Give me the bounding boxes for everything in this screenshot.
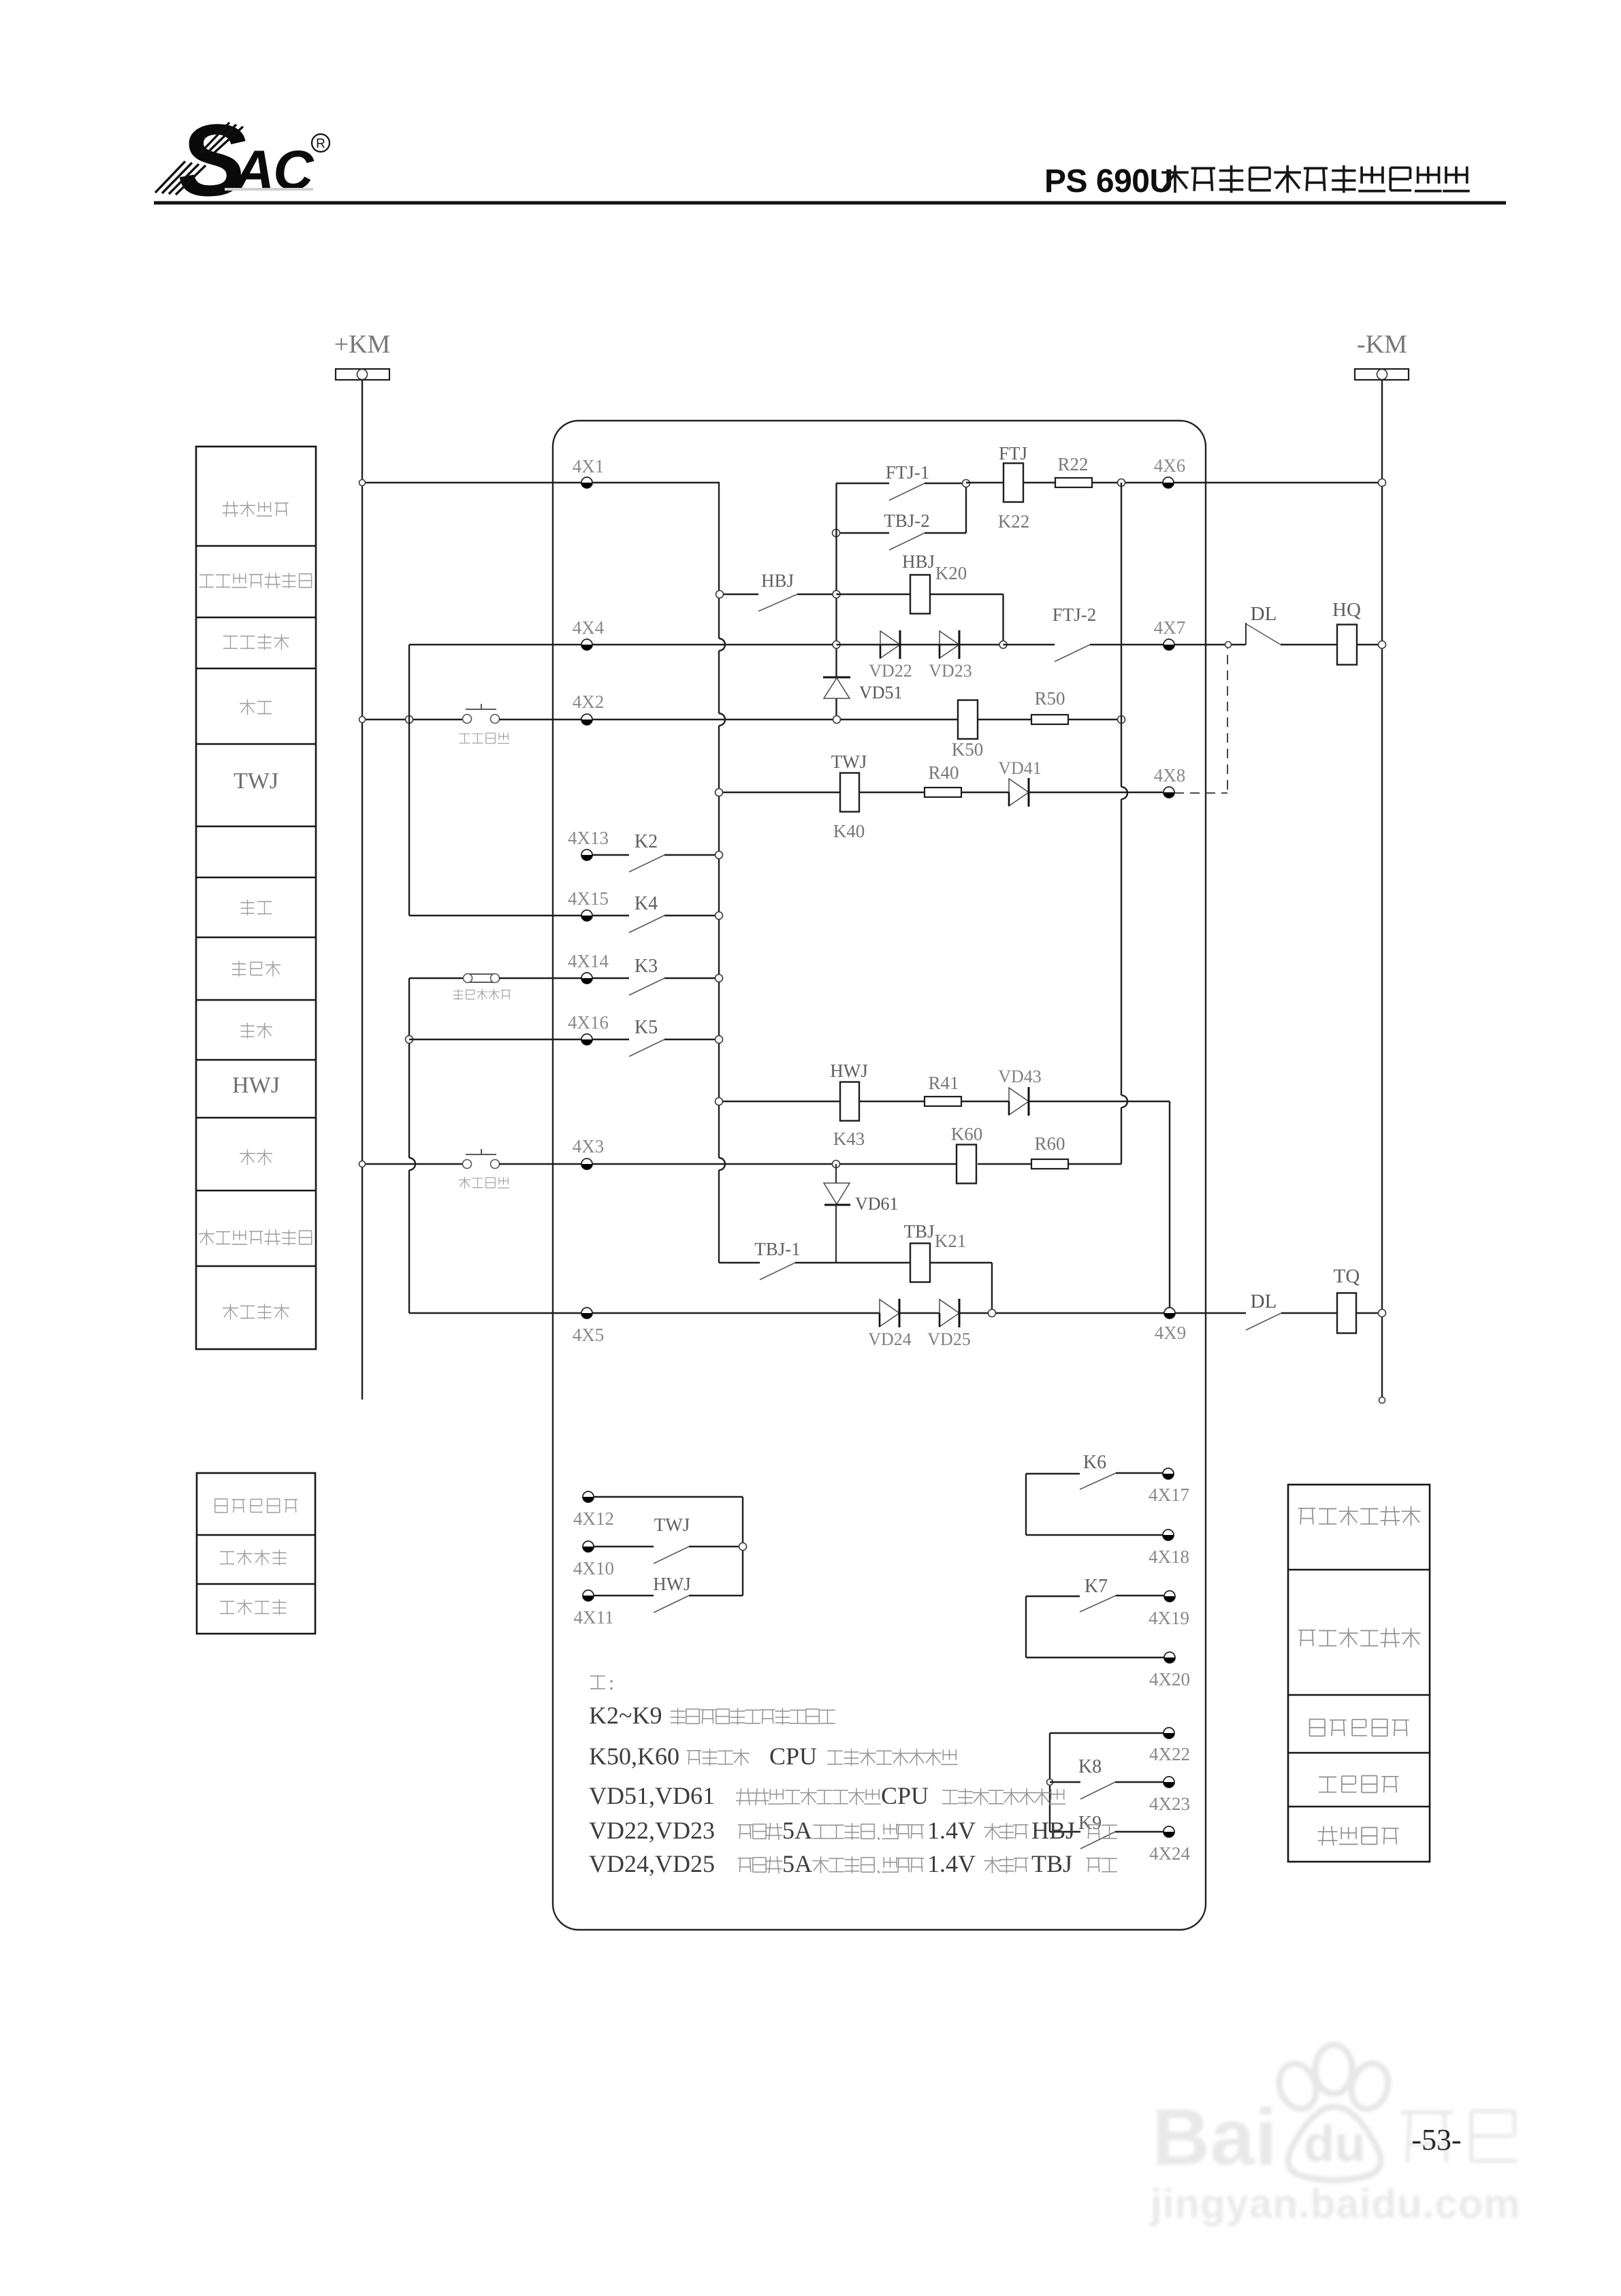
relay coil HBJ K20 bbox=[902, 551, 967, 614]
terminal 4X22 bbox=[1149, 1728, 1190, 1764]
wire K50 to R50 bbox=[978, 719, 1031, 720]
svg-text:HBJ: HBJ bbox=[1031, 1817, 1075, 1844]
wire 4X3 line bbox=[359, 1161, 468, 1167]
contact TBJ-2 bbox=[884, 511, 930, 531]
node label 防跳回路 bbox=[223, 502, 289, 517]
wire HQ to -KM bbox=[1357, 641, 1386, 649]
relay coil K50 bbox=[952, 700, 984, 760]
wire dashed DL linkage bbox=[1174, 648, 1227, 793]
svg-text:VD23: VD23 bbox=[929, 661, 972, 681]
svg-text:R41: R41 bbox=[928, 1073, 959, 1093]
svg-text:VD51,VD61: VD51,VD61 bbox=[589, 1782, 715, 1809]
resistor R40 bbox=[925, 762, 961, 797]
link plate 保护跳压板 bbox=[453, 974, 511, 1001]
svg-text:K7: K7 bbox=[1085, 1576, 1108, 1597]
wire TBJ to 4X9 row bbox=[930, 1263, 992, 1313]
svg-text:VD51: VD51 bbox=[859, 683, 903, 702]
relay coil TQ bbox=[1334, 1265, 1360, 1333]
svg-text:4X10: 4X10 bbox=[573, 1558, 614, 1579]
svg-text:-KM: -KM bbox=[1357, 330, 1407, 359]
svg-text:4X12: 4X12 bbox=[573, 1508, 614, 1529]
node label 合闸入口 bbox=[223, 634, 289, 650]
node label 信号公共端 bbox=[1310, 1719, 1409, 1736]
svg-text:4X5: 4X5 bbox=[573, 1325, 605, 1345]
wire K5 line bbox=[409, 1039, 592, 1040]
note line K50,K60 bbox=[589, 1743, 958, 1770]
svg-text:4X8: 4X8 bbox=[1154, 765, 1186, 786]
svg-text:4X16: 4X16 bbox=[568, 1012, 609, 1033]
node label 开关跳位 bbox=[220, 1550, 286, 1566]
wire 4X5 line bbox=[409, 1312, 880, 1314]
node junction at -KM bbox=[1379, 479, 1386, 487]
svg-text:VD22,VD23: VD22,VD23 bbox=[589, 1817, 715, 1844]
svg-text:4X9: 4X9 bbox=[1155, 1323, 1187, 1343]
svg-text:K43: K43 bbox=[833, 1129, 865, 1149]
relay coil FTJ K22 bbox=[998, 443, 1030, 532]
wire +KM bus bbox=[362, 380, 363, 1400]
relay coil K60 bbox=[951, 1124, 983, 1184]
logo SAC bbox=[155, 103, 330, 217]
svg-text:K22: K22 bbox=[998, 511, 1030, 532]
svg-text:FTJ-2: FTJ-2 bbox=[1053, 604, 1097, 625]
wire K60 to R60 bbox=[978, 1163, 1031, 1165]
terminal 4X6 bbox=[1154, 455, 1186, 488]
svg-text:5A: 5A bbox=[782, 1850, 812, 1877]
header rule bbox=[154, 201, 1506, 205]
svg-text:4X18: 4X18 bbox=[1149, 1547, 1189, 1567]
svg-text:1.4V: 1.4V bbox=[927, 1817, 976, 1844]
wire TWJ coil row bbox=[716, 789, 841, 796]
node label 信号公共端 bbox=[215, 1499, 298, 1513]
node label 开关合位 bbox=[220, 1600, 286, 1615]
watermark baidu jingyan bbox=[1150, 2045, 1521, 2227]
svg-text:K60: K60 bbox=[951, 1124, 983, 1144]
wire plate to 4X14 bbox=[499, 977, 592, 979]
wire branch join vertical bbox=[963, 480, 970, 534]
terminal 4X23 bbox=[1149, 1777, 1190, 1814]
diode VD51 bbox=[823, 677, 903, 702]
node +KM terminal bbox=[334, 330, 391, 380]
wire position block join bbox=[739, 1497, 747, 1596]
wire 4X1 line bbox=[359, 480, 720, 486]
node label 保护跳 bbox=[232, 961, 280, 977]
relay coil TWJ K40 bbox=[831, 751, 867, 841]
contact K7 bbox=[1026, 1576, 1170, 1612]
svg-text:HWJ: HWJ bbox=[830, 1061, 868, 1081]
wire HBJ coil row bbox=[837, 594, 1004, 645]
wire VD41 to 4X8 bbox=[1029, 792, 1169, 793]
diode VD22 bbox=[869, 630, 912, 681]
svg-text:4X11: 4X11 bbox=[574, 1607, 614, 1628]
wire VD25 to 4X9 bbox=[959, 1310, 1246, 1317]
wire R50 to vertical bbox=[1068, 716, 1125, 724]
terminal 4X10 bbox=[573, 1541, 614, 1579]
wire TBJ-2 branch bbox=[833, 530, 967, 551]
diode VD25 bbox=[899, 1299, 971, 1349]
terminal 4X3 bbox=[573, 1136, 605, 1169]
svg-text:K21: K21 bbox=[935, 1231, 967, 1251]
contact K9 bbox=[1050, 1813, 1169, 1849]
wire button to K50 bbox=[499, 716, 958, 724]
wire R41 to VD43 bbox=[961, 1101, 1009, 1102]
svg-text:TBJ-2: TBJ-2 bbox=[884, 511, 930, 531]
wire vertical C (K3 to 4X5 line) bbox=[406, 978, 416, 1313]
diode VD41 bbox=[998, 758, 1042, 807]
device boundary box bbox=[553, 421, 1206, 1930]
svg-text:5A: 5A bbox=[782, 1817, 812, 1844]
node label 遥跳 bbox=[241, 1023, 272, 1039]
wire button to K60 bbox=[499, 1161, 957, 1168]
svg-text:R50: R50 bbox=[1034, 688, 1065, 709]
note line VD22,VD23 bbox=[589, 1817, 1117, 1844]
svg-text:du: du bbox=[1304, 2116, 1365, 2172]
contact HWJ bbox=[594, 1574, 743, 1613]
svg-text:+KM: +KM bbox=[334, 330, 391, 359]
wire vertical A (4X4 to K4) bbox=[408, 645, 410, 916]
svg-text:K2~K9: K2~K9 bbox=[589, 1702, 662, 1729]
svg-text:TWJ: TWJ bbox=[831, 751, 867, 772]
svg-text:4X2: 4X2 bbox=[573, 692, 605, 712]
svg-text:R40: R40 bbox=[928, 762, 959, 783]
svg-text:K4: K4 bbox=[635, 893, 658, 914]
relay coil HQ bbox=[1332, 599, 1361, 665]
node label 跳闸回路自保持 bbox=[199, 1230, 312, 1246]
svg-text:4X17: 4X17 bbox=[1149, 1485, 1189, 1505]
terminal 4X1 bbox=[573, 456, 605, 488]
svg-text:K3: K3 bbox=[635, 956, 658, 977]
header title PS 690U manual bbox=[1044, 163, 1470, 199]
svg-text:VD24,VD25: VD24,VD25 bbox=[589, 1850, 715, 1877]
node label 手合 bbox=[240, 700, 272, 715]
svg-text:K5: K5 bbox=[635, 1017, 658, 1038]
svg-text:PS 690U: PS 690U bbox=[1044, 163, 1173, 199]
svg-text:DL: DL bbox=[1251, 1291, 1277, 1312]
svg-text:HWJ: HWJ bbox=[653, 1574, 691, 1594]
svg-text:HBJ: HBJ bbox=[902, 551, 935, 572]
svg-text:4X15: 4X15 bbox=[568, 888, 609, 909]
svg-text:K2: K2 bbox=[635, 831, 658, 852]
svg-text:VD22: VD22 bbox=[869, 661, 912, 681]
svg-text:TBJ: TBJ bbox=[1031, 1850, 1072, 1877]
wire vertical B (4X1 to TBJ-1) bbox=[719, 483, 725, 1263]
push button 跳闸按钮 bbox=[459, 1149, 509, 1189]
svg-text:4X24: 4X24 bbox=[1149, 1843, 1190, 1864]
svg-text:Bai: Bai bbox=[1152, 2092, 1277, 2182]
svg-text:K20: K20 bbox=[935, 563, 967, 583]
terminal 4X5 bbox=[573, 1308, 605, 1345]
terminal 4X8 bbox=[1154, 765, 1186, 798]
terminal 4X17 bbox=[1149, 1468, 1189, 1505]
svg-text:4X1: 4X1 bbox=[573, 456, 605, 476]
svg-text:4X23: 4X23 bbox=[1149, 1794, 1190, 1814]
push button 合闸按钮 bbox=[460, 704, 510, 743]
svg-text:VD43: VD43 bbox=[998, 1067, 1042, 1086]
wire K7 loop bbox=[1026, 1596, 1170, 1658]
node label 跳闸入口 bbox=[223, 1304, 289, 1320]
contact K8 bbox=[1047, 1756, 1170, 1799]
svg-text:TWJ: TWJ bbox=[654, 1515, 690, 1535]
svg-text:HBJ: HBJ bbox=[761, 570, 794, 591]
node label 合闸回路自保持 bbox=[199, 573, 312, 589]
svg-text:K50,K60: K50,K60 bbox=[589, 1743, 679, 1770]
wire FTJ-2 to HQ row bbox=[1004, 645, 1247, 662]
contact K2 bbox=[592, 831, 723, 872]
svg-text::: : bbox=[609, 1672, 614, 1694]
resistor R60 bbox=[1031, 1133, 1068, 1169]
node junction R22/V1647 bbox=[1118, 479, 1125, 487]
terminal 4X4 bbox=[573, 617, 605, 650]
signal common table bottom-left bbox=[197, 1473, 315, 1634]
contact DL (trip circuit) bbox=[1246, 1291, 1281, 1330]
diode VD23 bbox=[929, 630, 972, 681]
svg-text:4X19: 4X19 bbox=[1149, 1608, 1189, 1628]
terminal 4X12 bbox=[573, 1491, 614, 1529]
svg-text:4X6: 4X6 bbox=[1154, 455, 1186, 476]
contact DL (close circuit) bbox=[1246, 603, 1281, 645]
resistor R22 bbox=[1055, 454, 1092, 487]
wire K3 line bbox=[409, 977, 464, 979]
svg-text:VD25: VD25 bbox=[927, 1329, 971, 1349]
wire R60 to vertical 1647 bbox=[1068, 1163, 1121, 1165]
note line K2~K9 bbox=[589, 1702, 835, 1729]
contact K3 bbox=[592, 956, 723, 995]
diode VD61 bbox=[824, 1164, 899, 1263]
wire DL to HQ bbox=[1281, 644, 1337, 645]
wire TBJ-1 line bbox=[719, 1263, 910, 1280]
relay coil TBJ K21 bbox=[903, 1221, 966, 1282]
svg-text:VD24: VD24 bbox=[868, 1329, 912, 1349]
wire VD43 to 4X9 drop bbox=[1029, 1101, 1170, 1313]
wire DL to TQ bbox=[1281, 1312, 1337, 1314]
note line VD51,VD61 bbox=[589, 1782, 1065, 1809]
wire 4X2 line bbox=[359, 716, 468, 724]
svg-text:TBJ: TBJ bbox=[903, 1221, 934, 1242]
contact K5 bbox=[592, 1017, 723, 1056]
wire vertical 1647 (FTJ row to K60 row) bbox=[1121, 483, 1127, 1164]
wire 4X4 line bbox=[409, 644, 837, 645]
node -KM terminal bbox=[1355, 330, 1409, 380]
contact K6 bbox=[1026, 1452, 1168, 1489]
wire VD22/VD23 segment bbox=[837, 644, 1004, 645]
node junction DL dashed bbox=[1225, 642, 1232, 648]
svg-text:CPU: CPU bbox=[881, 1782, 929, 1809]
contact FTJ-1 bbox=[886, 462, 930, 483]
terminal 4X15 bbox=[568, 888, 609, 921]
node junction VD51 top bbox=[833, 641, 840, 649]
wire R40 to VD41 bbox=[961, 792, 1009, 793]
terminal 4X11 bbox=[574, 1590, 614, 1628]
terminal 4X14 bbox=[568, 951, 609, 984]
svg-text:4X22: 4X22 bbox=[1149, 1744, 1190, 1764]
svg-text:4X4: 4X4 bbox=[573, 617, 605, 638]
svg-text:TQ: TQ bbox=[1334, 1265, 1360, 1287]
svg-text:TBJ-1: TBJ-1 bbox=[754, 1239, 801, 1259]
svg-text:4X13: 4X13 bbox=[568, 828, 609, 848]
svg-text:1.4V: 1.4V bbox=[927, 1850, 976, 1877]
contact K4 bbox=[592, 893, 723, 933]
svg-text:HQ: HQ bbox=[1332, 599, 1361, 621]
right output label table bbox=[1288, 1485, 1430, 1862]
svg-text:VD61: VD61 bbox=[855, 1194, 899, 1214]
left label table bbox=[196, 447, 316, 1349]
svg-text:K50: K50 bbox=[952, 739, 984, 760]
node label 动作信号 bbox=[1319, 1776, 1398, 1793]
node label 手跳 bbox=[240, 1150, 272, 1165]
wire HWJ coil row bbox=[716, 1098, 841, 1105]
terminal 4X2 bbox=[573, 692, 605, 725]
resistor R50 bbox=[1031, 688, 1068, 724]
svg-text:K8: K8 bbox=[1078, 1756, 1102, 1777]
node label 遥合 bbox=[241, 900, 272, 916]
node junction HBJ drop bbox=[999, 641, 1007, 649]
diode VD24 bbox=[868, 1299, 912, 1349]
wire TQ to -KM bbox=[1356, 1310, 1386, 1317]
wire vertical 1228 (FTJ-1 to 4X2 line) bbox=[835, 483, 837, 719]
svg-text:FTJ: FTJ bbox=[999, 443, 1027, 464]
svg-text:TWJ: TWJ bbox=[234, 769, 278, 794]
wire FTJ coil row bbox=[966, 482, 1382, 483]
terminal 4X19 bbox=[1149, 1591, 1189, 1628]
wire K6 loop bbox=[1026, 1474, 1168, 1535]
svg-text:K9: K9 bbox=[1078, 1813, 1102, 1834]
wire -KM bus bbox=[1379, 380, 1385, 1404]
note line VD24,VD25 bbox=[589, 1850, 1117, 1877]
svg-text:DL: DL bbox=[1251, 603, 1277, 625]
relay coil HWJ K43 bbox=[830, 1061, 868, 1149]
note header bbox=[590, 1672, 614, 1694]
svg-text:CPU: CPU bbox=[769, 1743, 817, 1770]
wire 4X22 line bbox=[1050, 1733, 1169, 1832]
node label 备用跳闸出口 bbox=[1298, 1506, 1420, 1526]
wire HWJ to R41 bbox=[859, 1101, 925, 1102]
node label 告警信号 bbox=[1318, 1826, 1399, 1846]
wire TWJ to R40 bbox=[859, 792, 925, 793]
terminal 4X16 bbox=[568, 1012, 609, 1045]
svg-text:AC: AC bbox=[233, 140, 315, 201]
svg-text:4X14: 4X14 bbox=[568, 951, 609, 971]
contact TWJ bbox=[594, 1515, 743, 1564]
diode VD43 bbox=[998, 1067, 1042, 1116]
svg-text:jingyan.baidu.com: jingyan.baidu.com bbox=[1150, 2181, 1521, 2227]
terminal 4X9 bbox=[1155, 1308, 1187, 1343]
terminal 4X18 bbox=[1149, 1530, 1189, 1567]
terminal 4X13 bbox=[568, 828, 609, 860]
terminal 4X24 bbox=[1149, 1826, 1190, 1864]
svg-text:R60: R60 bbox=[1034, 1133, 1065, 1154]
svg-text:HWJ: HWJ bbox=[232, 1073, 280, 1098]
wire HBJ contact line bbox=[716, 591, 841, 612]
svg-text:K6: K6 bbox=[1083, 1452, 1106, 1473]
svg-text:FTJ-1: FTJ-1 bbox=[886, 462, 930, 483]
wire K4 line bbox=[409, 915, 592, 916]
wire 4X12 line bbox=[594, 1496, 743, 1498]
resistor R41 bbox=[925, 1073, 961, 1106]
svg-text:K40: K40 bbox=[833, 821, 865, 841]
terminal 4X20 bbox=[1149, 1652, 1190, 1689]
terminal 4X7 bbox=[1154, 617, 1186, 650]
svg-text:R22: R22 bbox=[1057, 454, 1088, 474]
svg-text:4X20: 4X20 bbox=[1149, 1669, 1190, 1689]
node label 备用跳闸出口 bbox=[1298, 1628, 1420, 1648]
svg-text:VD41: VD41 bbox=[998, 758, 1042, 778]
svg-text:4X3: 4X3 bbox=[573, 1136, 605, 1157]
svg-text:4X7: 4X7 bbox=[1154, 617, 1186, 638]
svg-text:R: R bbox=[316, 137, 325, 151]
svg-text:-53-: -53- bbox=[1411, 2123, 1461, 2156]
wire FTJ-1 branch bbox=[836, 483, 966, 500]
